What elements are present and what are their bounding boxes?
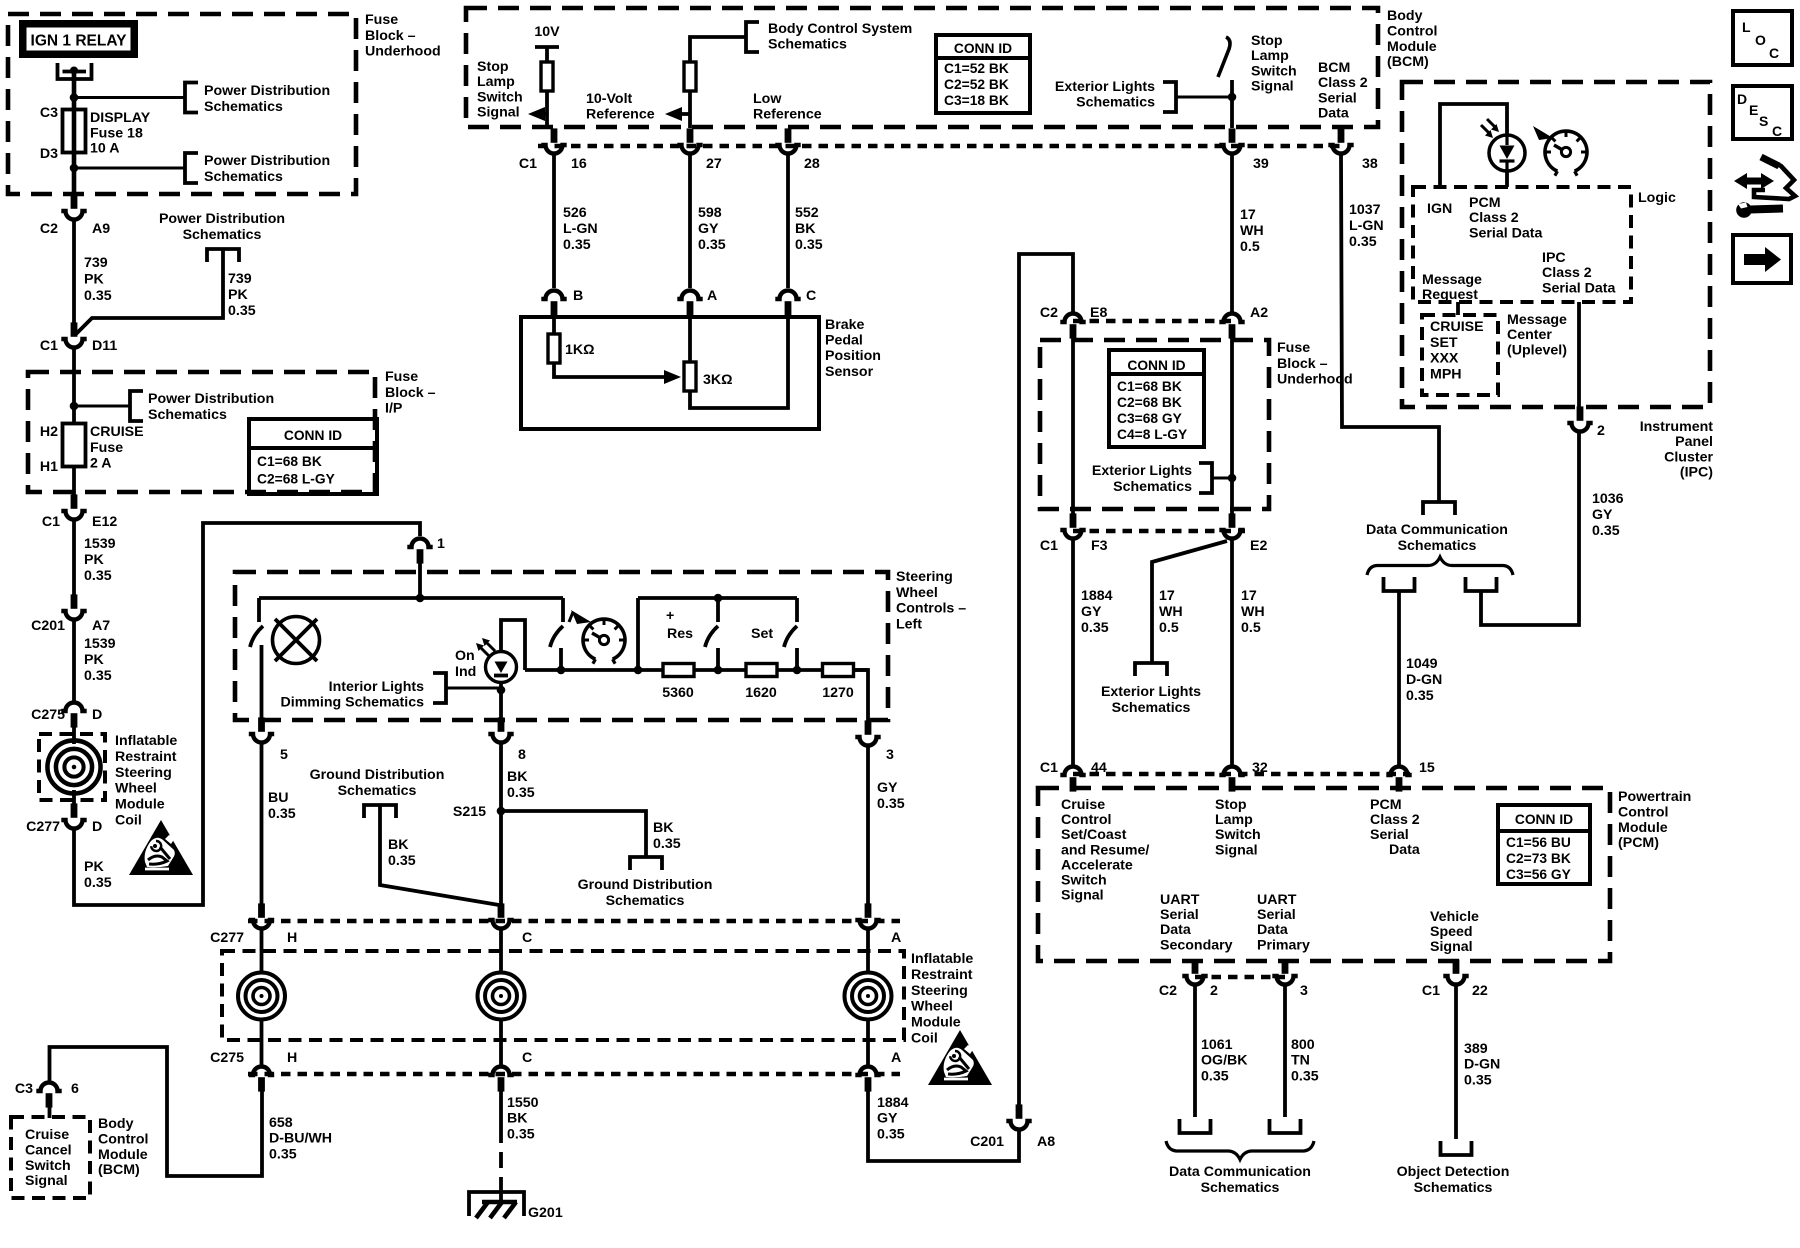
svg-text:C2=68 L-GY: C2=68 L-GY <box>257 472 335 487</box>
svg-text:0.35: 0.35 <box>84 288 112 304</box>
svg-text:Schematics: Schematics <box>768 36 847 52</box>
svg-text:Module: Module <box>1618 820 1668 836</box>
svg-text:Serial: Serial <box>1257 907 1296 923</box>
svg-text:A: A <box>707 288 717 304</box>
svg-text:Steering: Steering <box>896 569 953 585</box>
svg-text:CRUISE: CRUISE <box>90 424 144 440</box>
svg-text:Reference: Reference <box>753 106 822 122</box>
svg-text:Data Communication: Data Communication <box>1366 522 1508 538</box>
svg-text:A: A <box>891 930 901 946</box>
svg-text:38: 38 <box>1362 156 1378 172</box>
svg-text:Block –: Block – <box>1277 356 1328 372</box>
svg-text:Data: Data <box>1160 922 1191 938</box>
svg-text:Fuse: Fuse <box>90 440 123 456</box>
svg-text:Serial: Serial <box>1318 90 1357 106</box>
svg-text:0.35: 0.35 <box>268 806 296 822</box>
svg-text:Secondary: Secondary <box>1160 937 1233 953</box>
svg-text:Switch: Switch <box>477 89 523 105</box>
svg-text:CONN ID: CONN ID <box>1515 812 1573 827</box>
svg-text:WH: WH <box>1240 223 1264 239</box>
svg-text:Underhood: Underhood <box>365 44 441 60</box>
svg-text:+: + <box>666 608 674 624</box>
svg-text:1270: 1270 <box>822 685 854 701</box>
svg-text:C2: C2 <box>40 221 58 237</box>
svg-text:C201: C201 <box>31 618 65 634</box>
svg-text:0.35: 0.35 <box>795 237 823 253</box>
svg-text:IGN: IGN <box>1427 201 1452 217</box>
svg-text:Signal: Signal <box>1251 79 1294 95</box>
svg-text:15: 15 <box>1419 760 1435 776</box>
svg-text:L-GN: L-GN <box>1349 218 1384 234</box>
svg-text:Module: Module <box>911 1015 961 1031</box>
svg-text:C: C <box>522 930 532 946</box>
svg-text:1620: 1620 <box>745 685 777 701</box>
svg-text:C1: C1 <box>1040 760 1058 776</box>
svg-text:Power Distribution: Power Distribution <box>204 153 330 169</box>
svg-text:Ind: Ind <box>455 664 476 680</box>
svg-text:0.35: 0.35 <box>269 1146 297 1162</box>
svg-text:Powertrain: Powertrain <box>1618 789 1691 805</box>
svg-text:739: 739 <box>228 271 252 287</box>
svg-text:C3=56 GY: C3=56 GY <box>1506 867 1571 882</box>
svg-text:3: 3 <box>1300 983 1308 999</box>
svg-text:H2: H2 <box>40 424 58 440</box>
svg-text:(BCM): (BCM) <box>1387 54 1429 70</box>
svg-text:UART: UART <box>1257 892 1297 908</box>
svg-text:22: 22 <box>1472 983 1488 999</box>
svg-text:C2=73 BK: C2=73 BK <box>1506 851 1571 866</box>
svg-text:0.35: 0.35 <box>507 1126 535 1142</box>
svg-text:Module: Module <box>1387 39 1437 55</box>
svg-text:B: B <box>573 288 583 304</box>
svg-text:PK: PK <box>84 272 104 288</box>
svg-text:0.35: 0.35 <box>1592 523 1620 539</box>
svg-text:28: 28 <box>804 156 820 172</box>
svg-text:UART: UART <box>1160 892 1200 908</box>
svg-text:Schematics: Schematics <box>204 169 283 185</box>
svg-text:Exterior Lights: Exterior Lights <box>1055 79 1155 95</box>
svg-text:A8: A8 <box>1037 1134 1055 1150</box>
svg-text:0.35: 0.35 <box>653 836 681 852</box>
svg-text:Restraint: Restraint <box>911 967 973 983</box>
svg-text:Serial: Serial <box>1370 827 1409 843</box>
svg-text:Signal: Signal <box>25 1173 68 1189</box>
svg-text:739: 739 <box>84 255 108 271</box>
svg-text:Wheel: Wheel <box>911 999 953 1015</box>
svg-text:C1: C1 <box>42 514 60 530</box>
svg-text:C1=56 BU: C1=56 BU <box>1506 835 1571 850</box>
svg-text:C4=8 L-GY: C4=8 L-GY <box>1117 427 1187 442</box>
svg-text:0.35: 0.35 <box>228 303 256 319</box>
svg-text:Coil: Coil <box>115 813 142 829</box>
svg-text:Signal: Signal <box>1430 939 1473 955</box>
svg-text:32: 32 <box>1252 760 1268 776</box>
svg-text:0.35: 0.35 <box>1406 688 1434 704</box>
svg-text:1884: 1884 <box>1081 588 1113 604</box>
svg-text:D: D <box>92 707 102 723</box>
svg-text:Wheel: Wheel <box>115 781 157 797</box>
svg-text:Exterior Lights: Exterior Lights <box>1101 684 1201 700</box>
svg-text:Module: Module <box>98 1147 148 1163</box>
svg-text:(PCM): (PCM) <box>1618 835 1659 851</box>
svg-text:Stop: Stop <box>1251 33 1283 49</box>
svg-text:3: 3 <box>886 747 894 763</box>
svg-text:Serial Data: Serial Data <box>1542 280 1615 296</box>
svg-text:Switch: Switch <box>1251 63 1297 79</box>
svg-text:0.35: 0.35 <box>877 1126 905 1142</box>
svg-text:E: E <box>1749 102 1758 118</box>
svg-text:Interior Lights: Interior Lights <box>329 679 424 695</box>
svg-text:On: On <box>455 648 475 664</box>
svg-text:Logic: Logic <box>1638 190 1676 206</box>
svg-text:Control: Control <box>1618 804 1668 820</box>
svg-text:Control: Control <box>1061 812 1111 828</box>
svg-text:C1=68 BK: C1=68 BK <box>257 454 322 469</box>
svg-text:0.35: 0.35 <box>84 568 112 584</box>
svg-text:Data: Data <box>1318 106 1349 122</box>
svg-text:Stop: Stop <box>477 59 509 75</box>
svg-text:C3: C3 <box>40 105 58 121</box>
svg-text:Power Distribution: Power Distribution <box>148 391 274 407</box>
svg-text:2 A: 2 A <box>90 456 112 472</box>
svg-text:PCM: PCM <box>1370 797 1402 813</box>
svg-text:Schematics: Schematics <box>204 99 283 115</box>
svg-text:526: 526 <box>563 205 587 221</box>
svg-text:Switch: Switch <box>1061 873 1107 889</box>
svg-text:CONN ID: CONN ID <box>284 428 342 443</box>
svg-text:Exterior Lights: Exterior Lights <box>1092 463 1192 479</box>
svg-text:C2: C2 <box>1159 983 1177 999</box>
svg-text:E12: E12 <box>92 514 117 530</box>
svg-text:Brake: Brake <box>825 317 865 333</box>
svg-text:C3=68 GY: C3=68 GY <box>1117 411 1182 426</box>
svg-text:C1: C1 <box>1040 538 1058 554</box>
svg-text:0.35: 0.35 <box>388 853 416 869</box>
svg-text:DISPLAY: DISPLAY <box>90 110 151 126</box>
svg-text:Body: Body <box>1387 8 1423 24</box>
svg-text:Block –: Block – <box>385 385 436 401</box>
svg-text:Primary: Primary <box>1257 937 1310 953</box>
svg-text:1036: 1036 <box>1592 491 1624 507</box>
svg-text:Schematics: Schematics <box>606 893 685 909</box>
svg-text:Power Distribution: Power Distribution <box>204 83 330 99</box>
svg-text:Lamp: Lamp <box>477 74 515 90</box>
svg-text:Lamp: Lamp <box>1215 812 1253 828</box>
svg-text:Accelerate: Accelerate <box>1061 857 1133 873</box>
svg-text:C1: C1 <box>519 156 537 172</box>
svg-text:A: A <box>891 1050 901 1066</box>
svg-text:C1=68 BK: C1=68 BK <box>1117 379 1182 394</box>
svg-text:27: 27 <box>706 156 722 172</box>
svg-text:Schematics: Schematics <box>1076 94 1155 110</box>
svg-text:Serial Data: Serial Data <box>1469 225 1542 241</box>
svg-text:PCM: PCM <box>1469 195 1501 211</box>
svg-text:Switch: Switch <box>25 1158 71 1174</box>
svg-text:F3: F3 <box>1091 538 1108 554</box>
svg-text:Schematics: Schematics <box>1398 538 1477 554</box>
svg-text:BK: BK <box>507 1111 528 1127</box>
svg-text:D-GN: D-GN <box>1464 1057 1500 1073</box>
svg-text:Cruise: Cruise <box>1061 797 1105 813</box>
svg-text:H: H <box>287 1050 297 1066</box>
svg-text:D: D <box>1737 91 1747 107</box>
svg-text:D11: D11 <box>92 338 117 354</box>
svg-text:389: 389 <box>1464 1041 1488 1057</box>
svg-text:0.35: 0.35 <box>877 796 905 812</box>
svg-text:C2=52 BK: C2=52 BK <box>944 77 1009 92</box>
svg-text:C: C <box>806 288 816 304</box>
svg-text:C2=68 BK: C2=68 BK <box>1117 395 1182 410</box>
svg-text:0.35: 0.35 <box>507 785 535 801</box>
svg-text:S215: S215 <box>453 804 486 820</box>
svg-text:Steering: Steering <box>911 983 968 999</box>
svg-text:1550: 1550 <box>507 1095 539 1111</box>
svg-text:44: 44 <box>1091 760 1107 776</box>
svg-text:Low: Low <box>753 91 782 107</box>
svg-text:1KΩ: 1KΩ <box>565 342 595 358</box>
svg-text:L-GN: L-GN <box>563 221 598 237</box>
svg-text:Fuse: Fuse <box>385 369 418 385</box>
svg-text:(BCM): (BCM) <box>98 1162 140 1178</box>
svg-text:Pedal: Pedal <box>825 333 863 349</box>
svg-text:0.35: 0.35 <box>1201 1068 1229 1084</box>
svg-text:C275: C275 <box>210 1050 244 1066</box>
svg-text:Inflatable: Inflatable <box>115 733 177 749</box>
svg-text:C2: C2 <box>1040 305 1058 321</box>
svg-text:Ground Distribution: Ground Distribution <box>310 767 445 783</box>
svg-text:Schematics: Schematics <box>183 227 262 243</box>
svg-text:GY: GY <box>877 780 898 796</box>
svg-text:Instrument: Instrument <box>1640 419 1714 435</box>
svg-text:1049: 1049 <box>1406 656 1438 672</box>
svg-text:0.35: 0.35 <box>84 875 112 891</box>
svg-text:1037: 1037 <box>1349 202 1381 218</box>
svg-text:Data: Data <box>1257 922 1288 938</box>
svg-text:Message: Message <box>1422 272 1482 288</box>
svg-text:Controls –: Controls – <box>896 601 966 617</box>
svg-text:A2: A2 <box>1250 305 1268 321</box>
svg-text:10V: 10V <box>534 24 560 40</box>
svg-text:C3=18 BK: C3=18 BK <box>944 93 1009 108</box>
svg-text:8: 8 <box>518 747 526 763</box>
svg-text:6: 6 <box>71 1081 79 1097</box>
svg-text:Control: Control <box>1387 23 1437 39</box>
svg-text:0.5: 0.5 <box>1240 239 1260 255</box>
svg-text:Data: Data <box>1389 842 1420 858</box>
svg-text:0.35: 0.35 <box>1349 234 1377 250</box>
svg-text:E2: E2 <box>1250 538 1267 554</box>
svg-text:Schematics: Schematics <box>338 783 417 799</box>
svg-text:16: 16 <box>571 156 587 172</box>
svg-text:MPH: MPH <box>1430 366 1462 382</box>
svg-text:1539: 1539 <box>84 636 116 652</box>
svg-text:0.35: 0.35 <box>563 237 591 253</box>
svg-text:17: 17 <box>1240 207 1256 223</box>
svg-text:S: S <box>1759 113 1768 129</box>
svg-text:BK: BK <box>653 820 674 836</box>
svg-text:CONN ID: CONN ID <box>1127 358 1185 373</box>
svg-text:Position: Position <box>825 348 881 364</box>
svg-text:Cluster: Cluster <box>1664 449 1713 465</box>
svg-text:0.35: 0.35 <box>1464 1072 1492 1088</box>
svg-text:0.35: 0.35 <box>84 668 112 684</box>
svg-text:PK: PK <box>228 287 248 303</box>
svg-text:O: O <box>1755 32 1766 48</box>
svg-text:598: 598 <box>698 205 722 221</box>
svg-text:Sensor: Sensor <box>825 364 874 380</box>
svg-text:Stop: Stop <box>1215 797 1247 813</box>
svg-text:C1=52 BK: C1=52 BK <box>944 61 1009 76</box>
svg-text:CRUISE: CRUISE <box>1430 319 1484 335</box>
svg-text:XXX: XXX <box>1430 351 1459 367</box>
svg-text:C: C <box>1769 45 1779 61</box>
svg-text:GY: GY <box>877 1111 898 1127</box>
svg-text:OG/BK: OG/BK <box>1201 1053 1248 1069</box>
svg-text:Fuse: Fuse <box>365 12 398 28</box>
svg-text:5: 5 <box>280 747 288 763</box>
svg-text:Schematics: Schematics <box>1113 479 1192 495</box>
svg-text:1: 1 <box>437 536 445 552</box>
svg-text:C275: C275 <box>31 707 65 723</box>
svg-text:2: 2 <box>1210 983 1218 999</box>
svg-text:Coil: Coil <box>911 1031 938 1047</box>
svg-text:C277: C277 <box>210 930 244 946</box>
svg-text:C: C <box>1772 123 1782 139</box>
svg-text:Schematics: Schematics <box>1201 1180 1280 1196</box>
svg-text:Data Communication: Data Communication <box>1169 1164 1311 1180</box>
svg-text:Speed: Speed <box>1430 924 1473 940</box>
svg-text:Power Distribution: Power Distribution <box>159 211 285 227</box>
svg-text:Left: Left <box>896 616 922 632</box>
svg-text:L: L <box>1742 19 1751 35</box>
svg-text:C201: C201 <box>970 1134 1004 1150</box>
svg-text:Steering: Steering <box>115 765 172 781</box>
svg-text:Center: Center <box>1507 327 1552 343</box>
svg-text:SET: SET <box>1430 335 1458 351</box>
svg-text:Reference: Reference <box>586 106 655 122</box>
svg-text:A7: A7 <box>92 618 110 634</box>
svg-text:Ground Distribution: Ground Distribution <box>578 877 713 893</box>
svg-text:D3: D3 <box>40 146 58 162</box>
svg-text:(Uplevel): (Uplevel) <box>1507 342 1567 358</box>
svg-text:D: D <box>92 819 102 835</box>
svg-text:39: 39 <box>1253 156 1269 172</box>
svg-text:WH: WH <box>1241 604 1265 620</box>
svg-text:PK: PK <box>84 552 104 568</box>
svg-text:5360: 5360 <box>662 685 694 701</box>
svg-text:BK: BK <box>388 837 409 853</box>
svg-text:658: 658 <box>269 1115 293 1131</box>
svg-text:C3: C3 <box>15 1081 33 1097</box>
svg-text:BK: BK <box>795 221 816 237</box>
svg-text:Control: Control <box>98 1131 148 1147</box>
svg-text:A9: A9 <box>92 221 110 237</box>
svg-text:BK: BK <box>507 769 528 785</box>
svg-text:C1: C1 <box>40 338 58 354</box>
svg-text:Body Control System: Body Control System <box>768 21 912 37</box>
svg-text:GY: GY <box>1081 604 1102 620</box>
svg-text:Serial: Serial <box>1160 907 1199 923</box>
svg-text:1884: 1884 <box>877 1095 909 1111</box>
svg-text:800: 800 <box>1291 1037 1315 1053</box>
svg-text:1061: 1061 <box>1201 1037 1233 1053</box>
svg-text:H: H <box>287 930 297 946</box>
svg-text:Block –: Block – <box>365 28 416 44</box>
svg-text:10-Volt: 10-Volt <box>586 91 633 107</box>
svg-text:Fuse: Fuse <box>1277 340 1310 356</box>
svg-text:IGN 1 RELAY: IGN 1 RELAY <box>31 33 128 50</box>
svg-text:Fuse 18: Fuse 18 <box>90 125 143 141</box>
svg-text:Signal: Signal <box>1215 842 1258 858</box>
svg-text:C: C <box>522 1050 532 1066</box>
svg-text:17: 17 <box>1159 588 1175 604</box>
svg-text:and Resume/: and Resume/ <box>1061 842 1149 858</box>
svg-text:Dimming Schematics: Dimming Schematics <box>281 694 425 710</box>
svg-text:Request: Request <box>1422 287 1478 303</box>
svg-text:GY: GY <box>698 221 719 237</box>
svg-text:Lamp: Lamp <box>1251 48 1289 64</box>
svg-text:Panel: Panel <box>1675 434 1713 450</box>
svg-text:Module: Module <box>115 797 165 813</box>
svg-text:WH: WH <box>1159 604 1183 620</box>
svg-text:(IPC): (IPC) <box>1680 465 1713 481</box>
svg-text:Class 2: Class 2 <box>1318 75 1368 91</box>
svg-text:C277: C277 <box>26 819 60 835</box>
svg-text:Set: Set <box>751 626 773 642</box>
svg-text:D-GN: D-GN <box>1406 672 1442 688</box>
svg-text:TN: TN <box>1291 1053 1310 1069</box>
svg-text:3KΩ: 3KΩ <box>703 372 733 388</box>
svg-text:Switch: Switch <box>1215 827 1261 843</box>
svg-text:PK: PK <box>84 859 104 875</box>
svg-text:17: 17 <box>1241 588 1257 604</box>
svg-text:1539: 1539 <box>84 536 116 552</box>
svg-text:Class 2: Class 2 <box>1469 210 1519 226</box>
svg-text:0.35: 0.35 <box>1081 620 1109 636</box>
svg-text:Set/Coast: Set/Coast <box>1061 827 1127 843</box>
svg-text:552: 552 <box>795 205 819 221</box>
svg-text:Cruise: Cruise <box>25 1127 69 1143</box>
svg-text:Signal: Signal <box>1061 888 1104 904</box>
svg-text:2: 2 <box>1597 423 1605 439</box>
svg-text:Cancel: Cancel <box>25 1142 72 1158</box>
svg-text:BCM: BCM <box>1318 60 1350 76</box>
svg-text:0.5: 0.5 <box>1159 620 1179 636</box>
svg-text:Schematics: Schematics <box>148 407 227 423</box>
svg-text:PK: PK <box>84 652 104 668</box>
svg-text:Class 2: Class 2 <box>1542 265 1592 281</box>
svg-text:Schematics: Schematics <box>1112 700 1191 716</box>
svg-text:H1: H1 <box>40 459 58 475</box>
svg-text:Restraint: Restraint <box>115 749 177 765</box>
svg-text:10 A: 10 A <box>90 141 119 157</box>
svg-text:Vehicle: Vehicle <box>1430 909 1479 925</box>
svg-text:IPC: IPC <box>1542 250 1566 266</box>
svg-text:Wheel: Wheel <box>896 585 938 601</box>
svg-text:Body: Body <box>98 1116 134 1132</box>
svg-text:Message: Message <box>1507 312 1567 328</box>
svg-text:D-BU/WH: D-BU/WH <box>269 1131 332 1147</box>
svg-text:Res: Res <box>667 626 693 642</box>
svg-text:Class 2: Class 2 <box>1370 812 1420 828</box>
svg-text:0.35: 0.35 <box>1291 1068 1319 1084</box>
svg-text:Signal: Signal <box>477 105 520 121</box>
svg-text:BU: BU <box>268 790 289 806</box>
svg-text:GY: GY <box>1592 507 1613 523</box>
svg-text:E8: E8 <box>1090 305 1107 321</box>
svg-text:G201: G201 <box>528 1205 563 1221</box>
svg-text:I/P: I/P <box>385 401 402 417</box>
